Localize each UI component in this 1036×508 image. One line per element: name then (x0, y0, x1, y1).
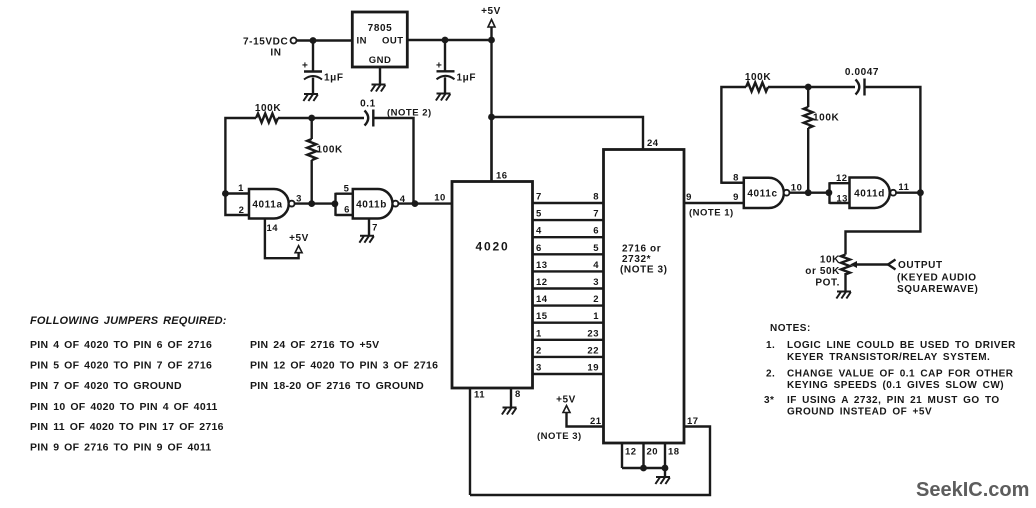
node VIN terminal 7-15VDC IN (243, 37, 297, 59)
svg-text:1.: 1. (766, 340, 775, 351)
svg-text:3: 3 (536, 363, 542, 374)
IC U3 4020 (452, 182, 533, 389)
ground 2716 pins 18-20 (655, 477, 670, 484)
wire bus row 4 pin6 to pin5 (533, 253, 604, 255)
wire C1 top (312, 41, 314, 72)
svg-text:0.1: 0.1 (360, 99, 376, 110)
IC U4 2716 (604, 150, 685, 444)
svg-text:4011a: 4011a (252, 199, 282, 210)
wire +5V rail down to pin16 junction (490, 40, 492, 182)
svg-text:3*: 3* (764, 395, 774, 406)
svg-text:8: 8 (515, 389, 521, 400)
svg-text:(NOTE 3): (NOTE 3) (537, 431, 582, 442)
svg-text:9: 9 (686, 192, 692, 203)
svg-text:2: 2 (536, 345, 542, 356)
svg-text:4011c: 4011c (747, 188, 777, 199)
svg-text:PIN 18-20 OF 2716 TO GROUND: PIN 18-20 OF 2716 TO GROUND (250, 380, 424, 392)
regulator U2 7805 (352, 12, 407, 67)
svg-text:22: 22 (587, 345, 599, 356)
svg-text:3: 3 (296, 194, 302, 205)
junction R2 top node (308, 115, 315, 122)
svg-text:SeekIC.com: SeekIC.com (916, 479, 1029, 501)
svg-text:+5V: +5V (289, 233, 309, 244)
svg-text:20: 20 (647, 447, 659, 458)
svg-text:12: 12 (625, 447, 637, 458)
svg-text:100K: 100K (255, 103, 281, 114)
capacitor C3 1uF (436, 40, 476, 84)
junction 4011c output node (805, 189, 812, 196)
svg-text:GROUND INSTEAD OF +5V: GROUND INSTEAD OF +5V (787, 407, 932, 418)
svg-text:15: 15 (536, 311, 548, 322)
svg-text:GND: GND (369, 55, 392, 66)
wire left oscillator top rail (225, 118, 364, 215)
wire 4011d output pin 11 (896, 191, 920, 193)
potentiometer R5 10K or 50K (841, 255, 888, 275)
junction 4011d output node (917, 189, 924, 196)
wire C2 right to feedback vertical (373, 118, 413, 204)
wire bus row 11 pin3 to pin19 (533, 373, 604, 375)
svg-text:13: 13 (836, 194, 848, 205)
svg-text:6: 6 (593, 226, 599, 237)
svg-text:KEYER TRANSISTOR/RELAY SYSTEM.: KEYER TRANSISTOR/RELAY SYSTEM. (787, 352, 990, 363)
ground 7805 (371, 85, 386, 92)
svg-text:PIN 7 OF 4020 TO GROUND: PIN 7 OF 4020 TO GROUND (30, 380, 182, 392)
svg-text:13: 13 (536, 260, 548, 271)
svg-text:2716 or: 2716 or (622, 244, 661, 255)
svg-text:OUT: OUT (382, 36, 404, 47)
svg-text:2.: 2. (766, 369, 775, 380)
svg-text:+5V: +5V (556, 395, 576, 406)
svg-text:10K: 10K (820, 255, 840, 266)
wire 4011b pin 7 to ground (368, 219, 370, 236)
svg-text:0.0047: 0.0047 (845, 67, 879, 78)
svg-text:10: 10 (791, 182, 803, 193)
svg-text:POT.: POT. (815, 278, 840, 289)
junction feedback node (412, 200, 419, 207)
note 1 text (766, 340, 1016, 363)
ground C3 (436, 94, 451, 101)
wire R4 bottom to 4011c output node (807, 128, 809, 193)
svg-text:IN: IN (270, 48, 281, 59)
pot value label 10K or 50K POT. (805, 255, 840, 289)
svg-text:10: 10 (434, 193, 446, 204)
svg-text:7-15VDC: 7-15VDC (243, 37, 288, 48)
svg-text:14: 14 (536, 294, 548, 305)
svg-text:7: 7 (593, 209, 599, 220)
resistor R3 100K (746, 83, 768, 92)
svg-text:21: 21 (590, 416, 602, 427)
svg-text:4011b: 4011b (356, 199, 387, 210)
capacitor C1 1uF (302, 61, 344, 84)
svg-text:(KEYED AUDIO: (KEYED AUDIO (897, 273, 977, 284)
junction pin 18 ground node (662, 465, 669, 472)
wire pin 16 (490, 117, 492, 182)
svg-text:PIN 9 OF 2716 TO PIN 9 OF 4: PIN 9 OF 2716 TO PIN 9 OF 4011 (30, 442, 212, 454)
wire output node down to pot (846, 193, 921, 255)
svg-text:5: 5 (344, 184, 350, 195)
wire +5V branch to 2716 pin 24 (492, 117, 644, 150)
svg-text:14: 14 (267, 223, 279, 234)
junction 4011a output node (308, 200, 315, 207)
capacitor C2 0.1 (360, 99, 376, 127)
ground C1 (303, 94, 318, 101)
svg-text:8: 8 (593, 192, 599, 203)
wire C3 to ground (444, 77, 446, 93)
svg-text:PIN 11 OF 4020 TO PIN 17 OF: PIN 11 OF 4020 TO PIN 17 OF 2716 (30, 421, 224, 433)
svg-text:5: 5 (536, 209, 542, 220)
wire bus row 6 pin12 to pin3 (533, 287, 604, 289)
junction C1 top node (310, 37, 317, 44)
wire VIN terminal to 7805 IN (297, 39, 353, 41)
svg-text:100K: 100K (813, 113, 839, 124)
svg-text:4: 4 (593, 260, 599, 271)
svg-text:12: 12 (836, 173, 848, 184)
svg-text:18: 18 (668, 447, 680, 458)
svg-text:100K: 100K (745, 72, 771, 83)
op-amp U1c nand gate 4011c (744, 178, 790, 208)
wire 2716 pins 12 20 18 to ground bar (622, 443, 665, 477)
svg-text:16: 16 (496, 171, 508, 182)
svg-text:1: 1 (238, 183, 244, 194)
svg-text:PIN 10 OF 4020 TO PIN 4 OF 4: PIN 10 OF 4020 TO PIN 4 OF 4011 (30, 401, 218, 413)
svg-text:7805: 7805 (368, 23, 393, 34)
svg-text:PIN 12 OF 4020 TO PIN 3 OF 271: PIN 12 OF 4020 TO PIN 3 OF 2716 (250, 360, 438, 372)
wire 4020 pin 8 to ground (510, 388, 512, 408)
svg-text:100K: 100K (317, 145, 343, 156)
svg-text:23: 23 (587, 328, 599, 339)
svg-text:SQUAREWAVE): SQUAREWAVE) (897, 284, 978, 295)
junction +5V rail corner node (488, 37, 495, 44)
power +5V at pin 14 (289, 233, 309, 253)
resistor R4 100K vertical (804, 107, 813, 128)
wire 2716 pin 9 to 4011c pin 9 (684, 202, 744, 204)
svg-text:4: 4 (536, 226, 542, 237)
svg-text:1: 1 (536, 328, 542, 339)
wire 4011c pin 8 input (721, 181, 743, 183)
wire bus row 8 pin15 to pin1 (533, 322, 604, 324)
svg-text:IN: IN (357, 36, 368, 47)
op-amp U1d nand gate 4011d (850, 178, 897, 209)
wire pin 1 input (225, 192, 249, 194)
junction C3 top node (442, 37, 449, 44)
svg-text:IF USING A 2732, PIN 21 MUST G: IF USING A 2732, PIN 21 MUST GO TO (787, 395, 1000, 406)
capacitor C4 0.0047 (845, 67, 879, 96)
svg-text:NOTES:: NOTES: (770, 323, 811, 334)
svg-text:4020: 4020 (476, 240, 510, 254)
wire R2 bottom to gate output node (311, 160, 313, 204)
wire C4 right to feedback vertical (865, 87, 921, 193)
svg-text:OUTPUT: OUTPUT (898, 260, 943, 271)
svg-text:9: 9 (733, 192, 739, 203)
svg-text:1μF: 1μF (324, 73, 344, 84)
wire pin 14 to +5V (265, 219, 299, 259)
svg-text:6: 6 (536, 243, 542, 254)
ground 4020 pin 8 (502, 408, 517, 415)
svg-text:PIN 5 OF 4020 TO PIN 7 OF 271: PIN 5 OF 4020 TO PIN 7 OF 2716 (30, 360, 212, 372)
wire bus row 7 pin14 to pin2 (533, 304, 604, 306)
power +5V top arrow (481, 6, 501, 40)
svg-text:2732*: 2732* (622, 254, 651, 265)
wire 4011b output pin 4 to 4020 pin 10 (398, 202, 452, 204)
wire pot bottom to ground (844, 273, 846, 292)
junction +5V rail to 2716 branch (488, 114, 495, 121)
op-amp U1a nand gate 4011a (249, 189, 295, 219)
note 2 text (766, 369, 1014, 392)
wire 4020 pin 11 down (469, 388, 471, 495)
junction pin1 left node (222, 190, 229, 197)
wire bus row 1 pin7 to pin8 (533, 202, 604, 204)
svg-text:(NOTE 1): (NOTE 1) (689, 208, 734, 219)
wire bottom rail pin11 to pin17 (470, 427, 710, 496)
svg-text:2: 2 (239, 205, 245, 216)
wire R2 top segment (311, 118, 313, 139)
svg-text:7: 7 (536, 192, 542, 203)
note 3 text (764, 395, 1000, 418)
svg-text:6: 6 (344, 205, 350, 216)
wire right oscillator top rail (721, 87, 855, 183)
jumper list right column (250, 339, 438, 392)
wire R4 top segment (807, 87, 809, 107)
svg-text:KEYING SPEEDS (0.1 GIVES SLOW: KEYING SPEEDS (0.1 GIVES SLOW CW) (787, 380, 1004, 391)
svg-text:11: 11 (898, 182, 909, 193)
junction pin 20 ground node (640, 465, 647, 472)
wire U1d input bar (830, 182, 850, 204)
wire bus row 10 pin2 to pin22 (533, 356, 604, 358)
op-amp U1b nand gate 4011b (353, 189, 399, 219)
wire bus row 2 pin5 to pin7 (533, 219, 604, 221)
svg-text:FOLLOWING JUMPERS REQUIRED:: FOLLOWING JUMPERS REQUIRED: (30, 315, 227, 327)
wire bus row 5 pin13 to pin4 (533, 270, 604, 272)
svg-text:+: + (302, 61, 308, 72)
svg-text:+: + (436, 61, 442, 72)
svg-text:LOGIC LINE COULD BE USED TO DR: LOGIC LINE COULD BE USED TO DRIVER (787, 340, 1016, 351)
svg-text:3: 3 (593, 277, 599, 288)
svg-text:5: 5 (593, 243, 599, 254)
svg-text:19: 19 (587, 363, 599, 374)
svg-text:+5V: +5V (481, 6, 501, 17)
wire +5V to pin 21 (567, 413, 604, 427)
svg-text:24: 24 (647, 138, 659, 149)
junction U1b input node (332, 200, 339, 207)
svg-text:4: 4 (400, 194, 406, 205)
jumper list left column (30, 339, 224, 454)
svg-text:1: 1 (593, 311, 599, 322)
wire 7805 GND down (379, 67, 381, 85)
wire U1b input bar (336, 193, 353, 216)
svg-text:PIN 24 OF 2716 TO +5V: PIN 24 OF 2716 TO +5V (250, 339, 379, 351)
wire 4011a output pin 3 (295, 202, 336, 204)
svg-text:or 50K: or 50K (805, 266, 840, 277)
wire 4011c output pin 10 (789, 191, 829, 193)
svg-text:17: 17 (687, 416, 699, 427)
resistor R1 100K (256, 114, 278, 123)
junction U1d input node (826, 189, 833, 196)
svg-text:12: 12 (536, 277, 548, 288)
wire C1 to ground (312, 78, 314, 95)
ground pot (836, 292, 851, 299)
resistor R2 100K vertical (307, 139, 316, 160)
wire 7805 OUT to +5V rail (407, 39, 491, 41)
svg-text:4011d: 4011d (854, 188, 885, 199)
node OUTPUT connector (888, 260, 978, 296)
power +5V at 2716 pin 21 (556, 395, 576, 413)
svg-text:7: 7 (372, 223, 378, 234)
svg-text:2: 2 (593, 294, 599, 305)
svg-text:1μF: 1μF (457, 73, 477, 84)
ground 4011b pin 7 (359, 236, 374, 243)
junction R4 top node (805, 84, 812, 91)
svg-text:CHANGE VALUE OF 0.1 CAP FOR OT: CHANGE VALUE OF 0.1 CAP FOR OTHER (787, 369, 1014, 380)
wire bus row 9 pin1 to pin23 (533, 339, 604, 341)
svg-text:(NOTE 3): (NOTE 3) (620, 265, 668, 276)
svg-text:PIN 4 OF 4020 TO PIN 6 OF 271: PIN 4 OF 4020 TO PIN 6 OF 2716 (30, 339, 212, 351)
svg-text:11: 11 (474, 390, 485, 401)
wire bus row 3 pin4 to pin6 (533, 236, 604, 238)
